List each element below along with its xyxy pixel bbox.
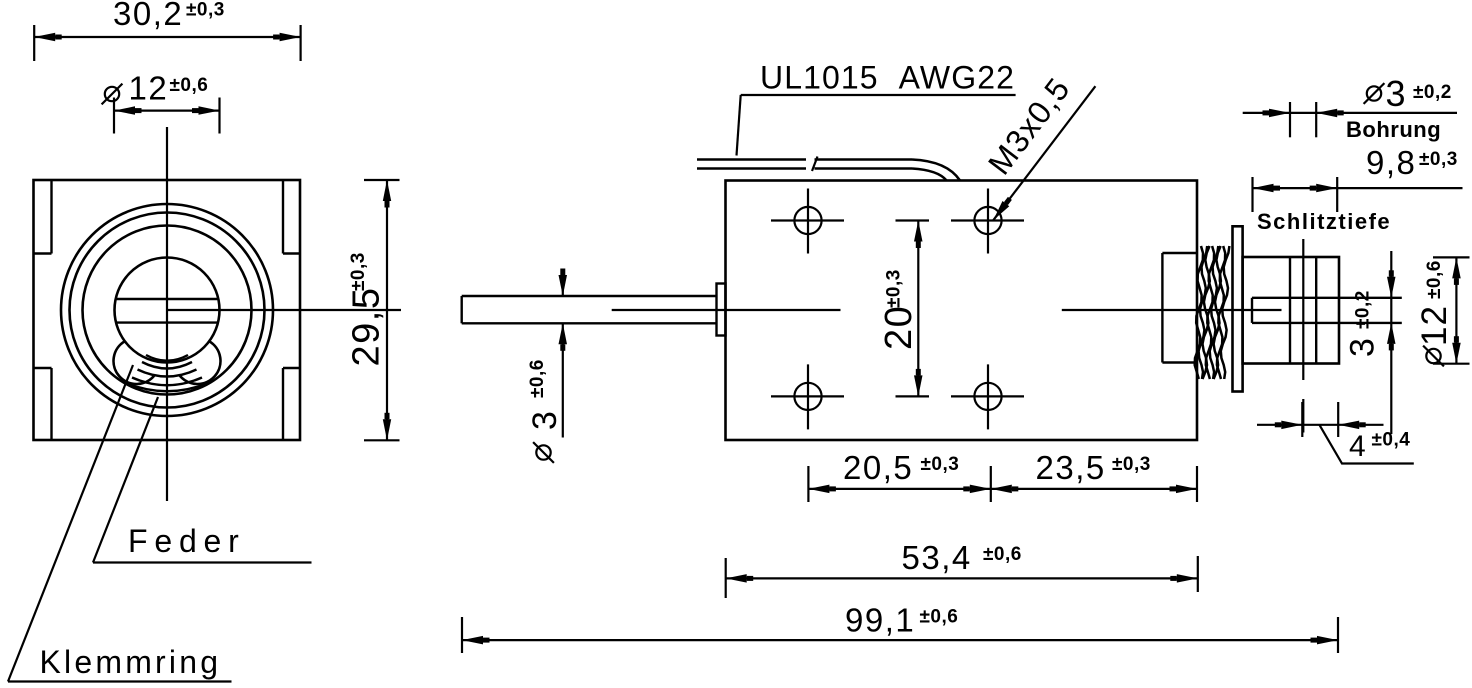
svg-text:±0,2: ±0,2 bbox=[1353, 290, 1374, 329]
svg-text:9,8: 9,8 bbox=[1366, 144, 1416, 181]
svg-text:3: 3 bbox=[1386, 73, 1406, 114]
svg-text:99,1: 99,1 bbox=[845, 602, 915, 639]
svg-text:±0,6: ±0,6 bbox=[920, 607, 959, 628]
svg-text:±0,6: ±0,6 bbox=[983, 544, 1022, 565]
svg-text:29,5: 29,5 bbox=[346, 287, 388, 367]
svg-text:±0,3: ±0,3 bbox=[348, 252, 369, 291]
svg-text:23,5: 23,5 bbox=[1036, 449, 1106, 486]
svg-text:12: 12 bbox=[129, 70, 169, 107]
svg-text:±0,3: ±0,3 bbox=[1112, 454, 1151, 475]
svg-text:53,4: 53,4 bbox=[902, 539, 972, 576]
svg-text:±0,3: ±0,3 bbox=[186, 0, 225, 21]
svg-text:±0,4: ±0,4 bbox=[1372, 430, 1411, 451]
svg-text:Klemmring: Klemmring bbox=[40, 644, 222, 680]
svg-text:Bohrung: Bohrung bbox=[1346, 117, 1441, 142]
svg-text:Feder: Feder bbox=[128, 523, 246, 559]
svg-text:±0,3: ±0,3 bbox=[884, 269, 905, 308]
svg-text:UL1015 AWG22: UL1015 AWG22 bbox=[760, 60, 1015, 96]
svg-text:20: 20 bbox=[878, 305, 920, 350]
svg-text:±0,3: ±0,3 bbox=[921, 454, 960, 475]
svg-text:Schlitztiefe: Schlitztiefe bbox=[1257, 209, 1391, 234]
svg-text:±0,3: ±0,3 bbox=[1419, 149, 1458, 170]
svg-text:3: 3 bbox=[526, 411, 564, 430]
svg-text:±0,2: ±0,2 bbox=[1413, 82, 1452, 103]
svg-text:12: 12 bbox=[1415, 305, 1454, 346]
svg-text:±0,6: ±0,6 bbox=[527, 359, 548, 398]
svg-text:4: 4 bbox=[1349, 430, 1366, 463]
svg-text:3: 3 bbox=[1344, 338, 1382, 357]
svg-text:±0,6: ±0,6 bbox=[170, 75, 209, 96]
svg-text:±0,6: ±0,6 bbox=[1424, 260, 1445, 299]
svg-text:30,2: 30,2 bbox=[113, 0, 183, 32]
svg-text:20,5: 20,5 bbox=[843, 449, 913, 486]
